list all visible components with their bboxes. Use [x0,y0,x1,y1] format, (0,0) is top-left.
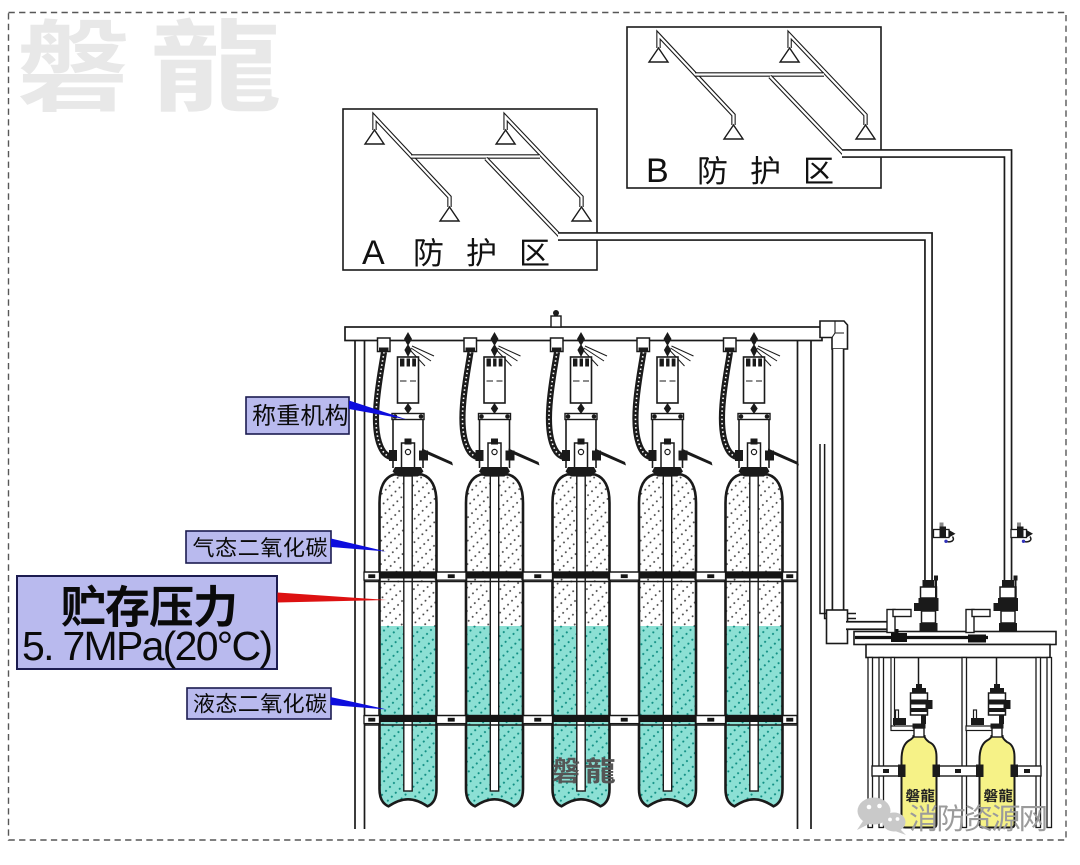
rail clips [898,765,906,778]
pilot cylinder 1 brand text [906,789,920,803]
rack upper clamp rail [364,571,797,578]
zone B nozzle 3 [724,125,743,139]
pilot cylinder release drop lines [919,658,997,687]
zone B branch pipe 1 [659,35,734,125]
pilot pipe fitting 2 [968,635,986,643]
zone A nozzle 3 [440,207,459,221]
selector valve 2 [1002,580,1014,587]
pilot cylinder 2 release valve [992,728,1002,737]
arrow gaseous CO2 [331,539,386,552]
zone A nozzle 4 [572,207,591,221]
svg-text:5. 7MPa(20°C): 5. 7MPa(20°C) [22,623,273,669]
pilot cylinder 2 gas connection [974,710,977,720]
riser to selector valve 2 [966,610,974,633]
cylinder 2 valve and weighing head assembly [462,332,539,477]
zone A nozzle 1 [365,130,384,144]
release device hangers [891,658,895,728]
selector valve 1 [923,580,935,587]
protection zone A box [343,109,597,270]
zone A nozzle 2 [496,130,515,144]
label weighing mechanism [246,397,349,434]
arrow liquid CO2 [331,697,388,710]
manifold outlet pipe to cabinet [846,621,890,630]
check valve on zone A pipe [940,523,944,527]
pilot gas cylinder 1 (yellow) [902,736,937,828]
arrow storage pressure [278,593,388,603]
zone B nozzle 4 [856,125,875,139]
zone B branch pipe 2 [790,35,866,125]
cylinder 5 valve and weighing head assembly [722,332,799,477]
zone B supply riser diagonal [770,77,845,155]
watermark site name text [910,804,936,831]
zone B main header pipe [695,72,824,76]
cabinet legs [868,658,873,828]
rack right post [798,341,812,830]
zone A supply pipe run to selector valve [558,237,929,582]
CO2 cylinder 1 body [379,475,437,809]
manifold bottom elbow [827,610,848,644]
pilot pipe fitting 1 [891,633,907,642]
pilot gas tubing pair [820,444,856,619]
rack lower clamp rail [364,715,797,722]
manifold top rail [345,327,822,341]
CO2 cylinder 3 body [552,475,610,809]
manifold vertical pipe [832,349,843,611]
riser to selector valve 1 [887,610,895,633]
arrow weighing mechanism [349,401,407,420]
CO2 cylinder 5 body [725,475,783,809]
zone A supply riser diagonal [486,159,561,237]
zone A main header pipe [411,154,540,158]
rail top vent fitting [551,316,561,327]
watermark panlong middle [553,757,580,783]
check valve on zone B pipe [1017,523,1021,527]
pilot cylinder 1 gas connection [896,710,899,720]
watermark logo chat bubbles [857,798,906,836]
zone B nozzle 2 [780,48,799,62]
protection zone B box [627,27,881,188]
zone B nozzle 1 [649,48,668,62]
zone A branch pipe 2 [506,117,582,207]
label liquid CO2 [187,688,331,719]
watermark panlong top-left [20,18,126,112]
cylinder 3 valve and weighing head assembly [549,332,626,477]
manifold elbow top right [820,321,848,349]
pilot gas cylinder 2 (yellow) [980,736,1015,828]
pilot pipe on shelf [855,636,988,639]
CO2 cylinder 4 body [639,475,697,809]
cylinder 1 valve and weighing head assembly [376,332,453,477]
pilot cylinder 2 brand text [984,789,998,803]
CO2 cylinder 2 body [466,475,524,809]
cylinder 4 valve and weighing head assembly [635,332,712,477]
cabinet middle rail [872,766,902,776]
svg-text:B: B [646,152,669,190]
label storage pressure box [17,576,277,669]
zone A branch pipe 1 [375,117,450,207]
cabinet top shelf [854,632,1056,645]
svg-text:A: A [362,234,385,272]
zone B supply pipe run to selector valve [842,154,1008,582]
label gaseous CO2 [186,531,331,563]
pilot cylinder 1 release valve [914,728,924,737]
cabinet frame bar [866,645,1050,658]
rack left post [355,341,365,830]
